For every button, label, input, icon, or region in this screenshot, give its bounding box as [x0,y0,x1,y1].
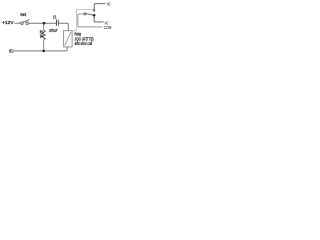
junction dot NC contact [93,14,96,17]
svg-text:Relay: Relay [75,31,82,36]
wire coil-to-armature link [72,9,93,31]
junction dot top rail [43,22,46,25]
wire NO contact [94,4,105,10]
svg-text:1K: 1K [40,34,43,39]
capacitor C1 left plate [55,20,57,26]
svg-text:+12V: +12V [2,20,14,25]
relay common pivot circle [84,13,86,15]
relay coil box [64,31,73,47]
svg-text:470uF: 470uF [49,28,58,33]
svg-text:Sw1: Sw1 [20,12,27,17]
wire relay coil bottom pin to NEG rail [66,47,68,50]
wire switch to capacitor [28,22,56,24]
svg-text:C1: C1 [53,15,57,20]
svg-text:NO: NO [107,2,111,7]
capacitor C1 right plate [57,20,59,26]
wire COM loop [78,14,102,27]
wire top rail to resistor R1 [43,24,45,30]
junction dot NEG rail [42,50,45,53]
wire NEG rail [14,50,67,51]
wire resistor R1 to NEG rail [43,40,45,50]
svg-text:COM: COM [104,25,112,30]
wire NC contact [94,16,104,22]
relay coil diagonal [65,32,71,46]
resistor R1 zigzag [42,30,45,39]
wire +12V to switch [14,22,20,24]
wire capacitor to relay coil top pin [59,23,69,30]
switch Sw1 left contact circle [21,22,24,25]
switch Sw1 right contact circle [26,22,29,25]
NO contact arrowhead [93,10,95,13]
svg-text:NEG: NEG [9,49,14,54]
svg-text:400 ohm coil: 400 ohm coil [75,41,93,46]
switch Sw1 blade [23,20,29,23]
relay armature blade [86,14,93,16]
